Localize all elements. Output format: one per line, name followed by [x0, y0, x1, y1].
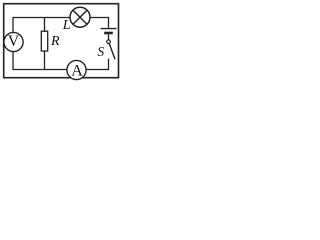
svg-text:A: A — [71, 62, 83, 79]
wire: top-left (voltmeter top to lamp left) — [13, 18, 70, 33]
wire: top-right (lamp right to battery) — [90, 18, 109, 28]
wire: resistor branch lower — [44, 51, 46, 70]
switch S pivot — [107, 40, 111, 44]
lamp L — [70, 7, 90, 27]
battery positive plate (long) — [101, 28, 117, 30]
border frame — [4, 4, 119, 78]
switch S blade — [109, 43, 115, 59]
svg-text:V: V — [8, 33, 20, 50]
ammeter A — [67, 60, 86, 79]
wire: battery to switch pivot — [108, 34, 110, 39]
svg-text:L: L — [62, 18, 71, 33]
svg-text:S: S — [97, 44, 104, 59]
voltmeter V — [4, 32, 23, 51]
svg-text:R: R — [50, 34, 60, 49]
battery negative plate (short thick) — [104, 32, 113, 35]
wire: bottom-right (ammeter right to switch contact) — [86, 59, 109, 70]
wire: left-bottom (voltmeter bottom to ammeter left) — [13, 51, 67, 69]
resistor R (box) — [41, 31, 47, 51]
wire: resistor branch upper — [44, 18, 46, 32]
